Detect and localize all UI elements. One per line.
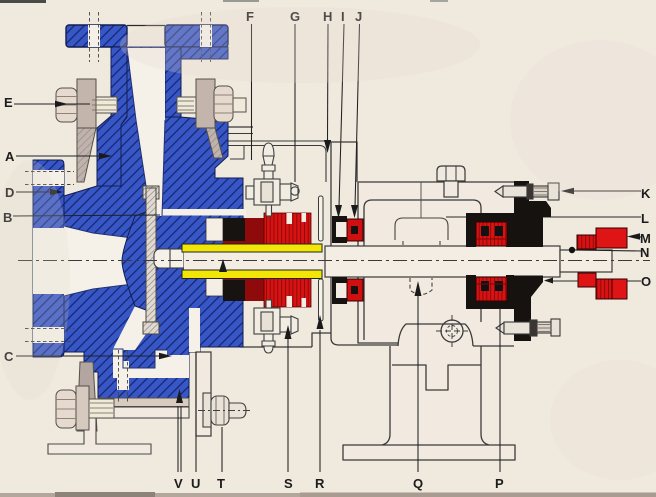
svg-text:V: V: [174, 476, 183, 491]
svg-text:Q: Q: [413, 476, 423, 491]
svg-text:U: U: [191, 476, 200, 491]
svg-text:N: N: [640, 245, 649, 260]
svg-text:R: R: [315, 476, 325, 491]
svg-text:O: O: [641, 274, 651, 289]
svg-text:L: L: [641, 211, 649, 226]
svg-text:E: E: [4, 95, 13, 110]
svg-text:A: A: [5, 149, 15, 164]
svg-text:P: P: [495, 476, 504, 491]
svg-text:M: M: [640, 231, 651, 246]
svg-text:S: S: [284, 476, 293, 491]
svg-text:T: T: [217, 476, 225, 491]
